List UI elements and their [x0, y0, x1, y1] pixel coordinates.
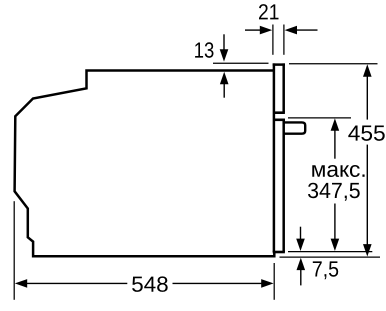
ext line panel-bottom level — [288, 251, 372, 253]
label макс. — [312, 165, 364, 177]
label 347,5 — [308, 183, 360, 201]
ext line body-bottom level — [280, 256, 381, 258]
front panel top edge — [273, 63, 285, 66]
dim 13 up arrow — [220, 72, 229, 98]
label 21 — [259, 4, 279, 19]
front panel left edge — [273, 63, 276, 252]
panel notch bottom bar — [273, 119, 285, 122]
label 548 — [132, 276, 168, 292]
front panel bottom edge — [273, 251, 285, 254]
dim 21 left arrow — [245, 26, 272, 35]
dim 455 line with arrows — [363, 64, 372, 256]
dim 21 right arrow — [285, 26, 318, 35]
oven body outline — [15, 71, 275, 257]
front panel right edge lower — [282, 119, 285, 252]
panel notch top bar — [273, 111, 285, 114]
front panel right edge upper — [282, 63, 285, 112]
label 7,5 — [313, 261, 338, 279]
ext line 13 (panel-top level, left of panel) — [213, 62, 269, 64]
ext line 548 right — [273, 263, 275, 300]
dim 7,5 up arrow — [297, 258, 306, 286]
dim 548 line with arrows — [15, 279, 274, 288]
ext line 347,5 top (right of panel) — [288, 117, 351, 119]
dim 7,5 down arrow — [296, 227, 305, 251]
ext line 548 left — [13, 201, 15, 300]
ext line 21 right — [283, 25, 285, 55]
dim 13 down arrow — [220, 34, 229, 61]
label 13 — [195, 42, 213, 58]
label 455 — [348, 126, 384, 141]
ext line 455 top (panel-top level, right of panel) — [289, 63, 378, 65]
ext line 21 left — [272, 25, 274, 55]
door handle — [283, 122, 305, 133]
dim 347,5 line with arrows — [331, 118, 340, 251]
